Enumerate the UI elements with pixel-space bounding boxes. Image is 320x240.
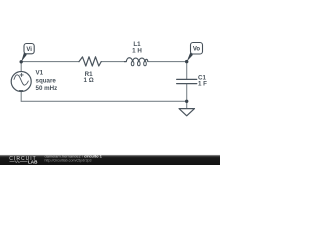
node Vo junction dot <box>185 60 188 63</box>
wire top rail left (node to R1) <box>21 61 79 63</box>
wire V1 top lead <box>20 62 22 72</box>
svg-text:LAB: LAB <box>28 160 38 165</box>
ground triangle <box>179 109 195 116</box>
svg-text:Vo: Vo <box>193 47 201 53</box>
wire C1 top lead <box>186 62 188 80</box>
svg-text:Vi: Vi <box>26 47 32 53</box>
svg-text:1 Ω: 1 Ω <box>84 77 94 84</box>
V1 plus sign <box>20 73 23 76</box>
footer CircuitLab logo <box>9 156 38 165</box>
voltage source V1 sine wave <box>14 75 28 85</box>
node ground junction dot <box>185 100 188 103</box>
node Vi junction dot <box>20 60 23 63</box>
wire V1 bottom lead and corner <box>20 92 22 102</box>
svg-text:1 F: 1 F <box>198 80 207 87</box>
capacitor C1 bottom plate <box>177 83 197 85</box>
ground stub <box>186 101 188 108</box>
flag Vo pointer <box>187 52 193 61</box>
svg-text:http://circuitlab.com/c5pdr3p3: http://circuitlab.com/c5pdr3p3 <box>45 159 92 163</box>
V1 minus sign <box>19 89 23 91</box>
svg-text:V1: V1 <box>36 70 44 77</box>
inductor L1 loop 2 <box>138 61 141 65</box>
resistor R1 zigzag <box>79 57 101 66</box>
voltage source V1 circle <box>11 72 31 92</box>
inductor L1 coil humps <box>125 58 148 62</box>
flag Vi pointer <box>21 52 27 62</box>
inductor L1 loop 3 <box>144 61 147 65</box>
svg-text:1 H: 1 H <box>132 47 142 54</box>
wire top rail right (L1 to Vo node) <box>148 61 187 63</box>
flag Vi box <box>24 44 34 54</box>
flag Vo box <box>191 43 203 55</box>
wire bottom rail <box>21 100 187 102</box>
inductor L1 loop 1 <box>131 61 134 65</box>
wire top rail middle (R1 to L1) <box>101 61 124 63</box>
wire C1 bottom lead <box>186 84 188 102</box>
svg-text:square: square <box>36 77 57 84</box>
svg-text:50 mHz: 50 mHz <box>36 85 58 92</box>
capacitor C1 top plate <box>177 78 197 80</box>
